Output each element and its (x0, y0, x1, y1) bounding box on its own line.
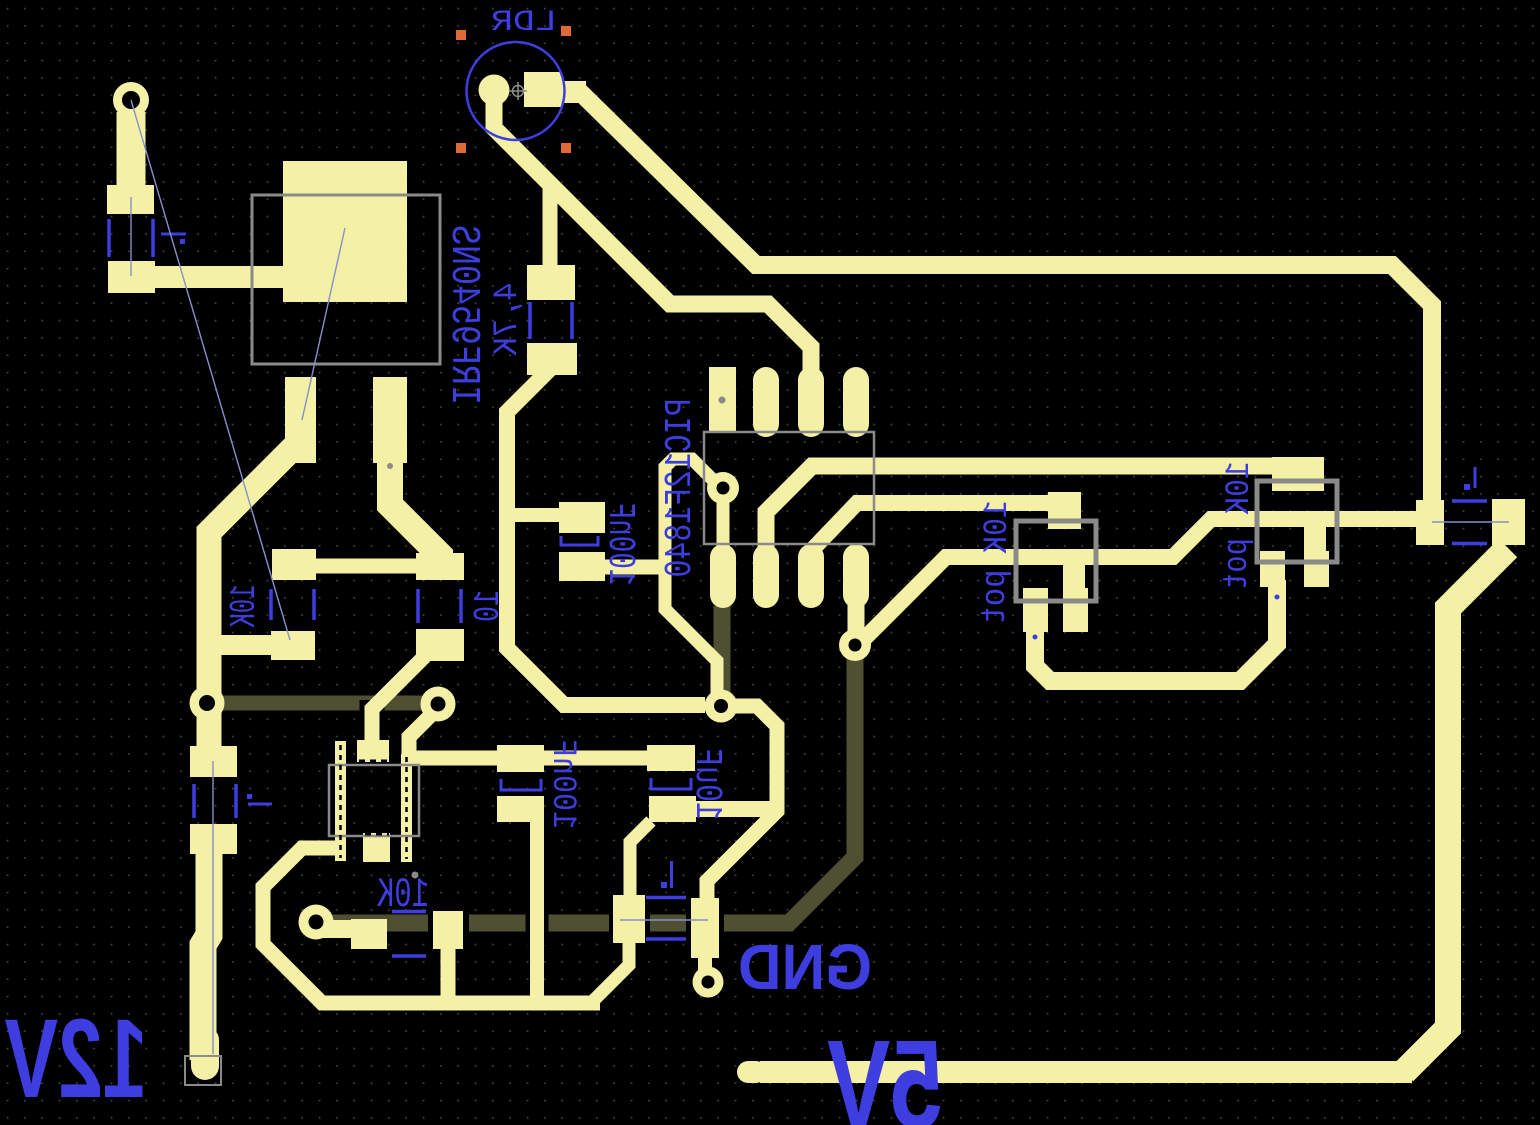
silk R4 body lines (392, 912, 426, 957)
via B pad (421, 687, 456, 722)
svg-text:PIC12F1840: PIC12F1840 (659, 399, 702, 578)
wire bottom-layer 12V jumper via A to via B (210, 696, 436, 711)
wire VDD rail TC4420 to C5 and C6 top pads (408, 751, 650, 766)
svg-text:LDR: LDR (491, 6, 557, 40)
silk U2 pin dashes right bar (405, 757, 408, 859)
wire R4 right pad to GND band (441, 945, 456, 1000)
ratsnest R1 (130, 197, 132, 276)
wire bottom-layer GND jumper chip pad1 to via D (714, 606, 731, 700)
ratsnest C1 (1432, 521, 1509, 523)
wire LDR square pad long top trace to right edge (578, 90, 1432, 505)
fuse F1 bottom pad (190, 824, 237, 854)
wire R3 top to gate junction (290, 559, 443, 574)
wire via E to PIC pad5 (717, 488, 730, 570)
svg-text:100nF: 100nF (543, 739, 581, 829)
outline Q1 IRF9540NS courtyard (252, 195, 440, 364)
wire clearance halo of cap C7 leg over olive (618, 940, 641, 965)
wire PIC pad3 to pot P1 top pad (811, 503, 1055, 551)
resistor R10 bottom pad (416, 629, 464, 661)
wire R1 bottom pad to MOSFET tab, 12V drain trace (131, 266, 295, 288)
IC U2 TC4420 right pin bar (401, 754, 412, 862)
IC U1 pad 4 stadium bottom (843, 544, 869, 608)
crosshair LDR origin (509, 82, 527, 100)
hole via C (309, 915, 324, 930)
resistor R2 4,7K top pad (527, 265, 575, 300)
hole via B2 (849, 639, 862, 652)
potentiometer P2 bottom-left pad (1260, 551, 1285, 587)
ratsnest F1 to 12V terminal (212, 761, 214, 1054)
capacitor C6 10uF bottom pad (649, 796, 696, 822)
outline U2 TC4420 body (329, 765, 419, 836)
resistor R3 10K bottom pad (271, 631, 315, 660)
silk C6 bracket (651, 778, 691, 789)
pin marker dot U2 (412, 872, 419, 879)
silk C7 value 1. (670, 861, 673, 888)
hole via D (714, 699, 728, 713)
silk C7 body lines (646, 898, 686, 940)
via E pad (707, 472, 739, 504)
pad GND terminal ring (693, 967, 724, 998)
LDR round pad (479, 75, 510, 106)
potentiometer P1 top pad (1048, 492, 1081, 529)
wire wiper trace via B2 to pots and right cap (855, 519, 1424, 648)
hole J1 (122, 91, 140, 109)
via A pad on 12V rail (190, 686, 225, 721)
IC U1 pad 1 stadium bottom (710, 544, 736, 608)
silk U2 pin dashes left bar (339, 745, 342, 858)
resistor R10 top pad (416, 553, 464, 580)
IC U2 TC4420 top-center pad (357, 740, 389, 762)
fuse F1 top pad (190, 746, 237, 777)
wire R10 bottom to TC4420 output pin (372, 652, 429, 748)
wire 12V rail fuse to terminal (203, 850, 209, 1060)
capacitor C2 100nF top pad (559, 502, 605, 533)
resistor R4 10K right pad (433, 911, 463, 949)
silk C2 bracket (561, 536, 598, 545)
resistor R1 top pad (107, 185, 154, 214)
svg-text:100nF: 100nF (598, 503, 641, 586)
wire clearance halo around GND terminal pad (686, 893, 724, 963)
capacitor C2 100nF bottom pad (559, 552, 605, 581)
capacitor C7 left pad (613, 895, 645, 943)
IC U1 pad 7 stadium (753, 367, 779, 437)
svg-text:10K: 10K (1221, 462, 1259, 516)
silk U2 top pad dashes (359, 760, 387, 763)
resistor R1 bottom pad (108, 261, 155, 293)
capacitor C1 right edge left pad (1416, 500, 1444, 545)
svg-text:IRF9540NS: IRF9540NS (440, 225, 486, 405)
wire Q1 right pin to gate junction (390, 452, 440, 562)
via D pad (705, 690, 738, 723)
pin marker dot Q1 (387, 463, 393, 469)
svg-text:10K: 10K (224, 585, 265, 628)
svg-text:GND: GND (738, 931, 872, 1003)
LDR corner marker top-left (456, 30, 466, 40)
svg-text:5V: 5V (827, 1014, 943, 1125)
IC U1 pad 5 stadium (843, 367, 869, 437)
capacitor C1 right edge right pad (1492, 499, 1525, 545)
wire C2 bottom pad to chip-left GND trace (600, 560, 663, 575)
wire Q1 left pin to 12V rail (209, 440, 301, 750)
LDR corner marker top-right (561, 26, 571, 36)
ratsnest C7 (620, 919, 708, 921)
LDR square pad (524, 72, 562, 107)
IC U1 pad 6 stadium (798, 367, 824, 437)
wire R2 bottom to via B and C2 branch (507, 368, 705, 705)
wire clearance halo around resistor R4 right pad (428, 906, 469, 954)
capacitor C6 10uF top pad (647, 745, 695, 771)
IC U1 pad 2 stadium bottom (753, 544, 779, 608)
svg-text:pot: pot (1219, 538, 1257, 590)
IC U1 PIC12F1840 pad 8 top-left square pad (709, 367, 736, 431)
potentiometer P1 bottom-left pad (1023, 588, 1048, 632)
wire 5V from C1 right pad down right edge (1404, 548, 1508, 1072)
wire 12V branch to R3 bottom pad (207, 635, 280, 655)
wire PIC pad2 to pot P2 top pad (766, 466, 1280, 548)
resistor R2 4,7K bottom pad (527, 343, 577, 375)
silk C1 value 1. (1474, 467, 1477, 488)
silk C5 bracket (501, 779, 541, 790)
pad 5V trace rounded left end (748, 1061, 756, 1083)
wire clearance halo around C7 left pad (609, 890, 650, 948)
svg-text:10K: 10K (376, 871, 429, 919)
resistor R3 10K top pad (272, 549, 316, 580)
potentiometer P1 bottom-right pad (1063, 588, 1088, 632)
IC U2 TC4420 left pin bar (335, 741, 346, 861)
transistor Q1 right pin pad (373, 377, 407, 463)
wire branch to C2 100nF top pad (505, 508, 565, 522)
svg-text:12V: 12V (5, 996, 148, 1121)
wire stub LDR net to R2 top (543, 180, 558, 270)
wire via B to TC4420 VDD pins (409, 708, 438, 760)
potentiometer P2 top pad (1272, 457, 1324, 491)
silk R1 value 1. (161, 233, 186, 236)
wire GND terminal stub (698, 955, 712, 975)
svg-text:10: 10 (468, 590, 509, 622)
silk P1 marker dot (1033, 635, 1038, 640)
LDR corner marker bottom-left (456, 143, 466, 153)
via B2 pad (839, 629, 871, 661)
transistor Q1 left pin pad (285, 377, 316, 463)
silk P2 marker dot (1275, 595, 1280, 600)
wire GND loop around via C from TC4420 GND pins (263, 848, 600, 1003)
silk C1 body lines (1452, 501, 1487, 544)
wire bottom-layer wiper net via C to via B2 (316, 650, 855, 923)
LDR silk circle (467, 42, 565, 140)
outline 12V terminal box (185, 1056, 221, 1085)
hole via A (199, 695, 215, 711)
IC U2 TC4420 bottom-center pad (363, 833, 390, 862)
pin1 marker dot U1 (719, 397, 726, 404)
via C pad (299, 905, 334, 940)
svg-text:pot: pot (977, 570, 1015, 625)
LDR corner marker bottom-right (561, 143, 571, 153)
svg-text:10uF: 10uF (685, 748, 728, 820)
ratsnest J1 to R3 (131, 100, 290, 640)
resistor R4 10K left pad (351, 919, 387, 949)
pad J1 ring top-left (113, 82, 149, 118)
potentiometer P2 bottom-right pad (1304, 551, 1329, 587)
wire via D jog down to GND terminal (707, 706, 777, 905)
wire PIC pad4 to via B2 (848, 560, 865, 640)
hole via E (717, 482, 730, 495)
outline P1 pot body (1016, 521, 1096, 601)
silk R3 body lines (271, 589, 314, 620)
wire C5 bottom pad to GND band (530, 820, 544, 1000)
wire clearance halo of R10 gate trace over olive (360, 700, 385, 750)
ratsnest Q1 tab to left pin (302, 228, 345, 420)
capacitor C5 100nF bottom pad (497, 796, 544, 822)
outline P2 pot body (1257, 481, 1337, 562)
wire clearance halo of cap C5 leg over olive (526, 820, 549, 945)
silk U2 bottom pad dashes (365, 833, 389, 836)
wire P1 wiper stub (1063, 557, 1085, 595)
wire P1 bottom-left pad loop to P2 bottom-left pad (1035, 580, 1277, 681)
wire chip via E around left of PIC to via D (665, 459, 723, 695)
silk R10 body lines (418, 589, 461, 623)
pad 12V terminal rounded end (191, 1040, 219, 1066)
wire C6 bottom pad to C7 left pad (630, 821, 651, 900)
wire C7 left pad to GND band (591, 940, 629, 1003)
outline U1 PIC12F1840 body (704, 432, 874, 544)
silk R2 body lines (530, 302, 572, 339)
svg-text:4,7K: 4,7K (489, 283, 527, 357)
capacitor C5 100nF top pad (497, 745, 544, 772)
wire LDR round pad to PIC pin trace (494, 98, 811, 380)
silk R1 body lines (109, 219, 153, 257)
IC U1 pad 3 stadium bottom (798, 544, 824, 608)
hole via B (431, 697, 446, 712)
wire P2 wiper stub (1304, 520, 1326, 555)
svg-text:10K: 10K (979, 501, 1017, 555)
wire C6 bottom pad right to GND drop (690, 801, 777, 817)
wire via C stub to R4 left pad (316, 920, 355, 938)
pad GND terminal rect, C7 right pad (691, 898, 719, 958)
silk F1 body lines (194, 784, 236, 818)
hole GND ring (702, 976, 715, 989)
wire J1 pad to R1 (117, 112, 146, 190)
transistor Q1 IRF9540NS tab pad (283, 161, 407, 302)
silk F1 value 1. (248, 803, 272, 806)
